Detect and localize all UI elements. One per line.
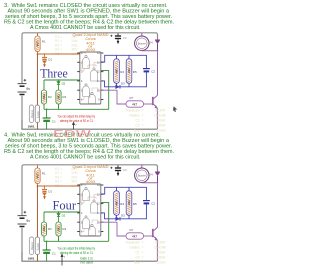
svg-text:Magnet: Magnet — [31, 242, 34, 251]
reed switch SW1 — [35, 105, 40, 123]
paragraph 3 — [4, 3, 174, 31]
svg-text:You can adjust the initial del: You can adjust the initial delay by — [58, 114, 96, 118]
diode D2 — [57, 213, 61, 222]
diode D4 — [155, 171, 160, 183]
resistor R7 4k7 — [126, 228, 144, 239]
battery B1 9v — [18, 172, 27, 252]
svg-text:7: 7 — [64, 256, 66, 259]
wire collector purple — [157, 51, 159, 96]
svg-text:D1: D1 — [48, 189, 52, 193]
svg-text:10M: 10M — [127, 200, 131, 206]
svg-text:2M2: 2M2 — [57, 94, 61, 100]
wire R1 top — [37, 33, 39, 36]
svg-text:D4: D4 — [149, 172, 153, 176]
svg-text:R5: R5 — [133, 70, 137, 74]
svg-text:EDW: EDW — [53, 128, 91, 140]
parts list (semiconductors) — [125, 241, 166, 265]
wire blue timing loop — [101, 187, 147, 219]
wire green to IC pin 12 — [101, 71, 109, 110]
resistor R1 4M7 — [35, 168, 46, 184]
svg-text:SW1: SW1 — [28, 257, 35, 261]
resistor R7 4k7 — [126, 96, 144, 107]
svg-text:D2: D2 — [62, 81, 66, 85]
note: adjust initial delay — [58, 246, 96, 255]
NAND gate 2 — [91, 200, 98, 213]
svg-text:You can adjust the initial del: You can adjust the initial delay by — [58, 246, 96, 250]
wire blue timing loop — [101, 55, 147, 87]
svg-text:R7: R7 — [130, 96, 134, 100]
svg-text:C1: C1 — [52, 119, 56, 123]
wire base purple from pin 10 — [101, 222, 126, 236]
NAND gate 1 — [83, 187, 90, 200]
svg-text:altering the value of R2 or C1: altering the value of R2 or C1 — [60, 251, 93, 255]
svg-text:Transistor =: Transistor = — [125, 241, 143, 245]
svg-text:C1: C1 — [52, 251, 56, 255]
svg-text:4M7: 4M7 — [36, 173, 40, 179]
svg-text:not used: not used — [81, 260, 93, 264]
pin 7 to 0v arrow — [72, 122, 77, 130]
IC type note: Quad 2-input NAND Cmos 4011 or 4093 — [73, 165, 109, 184]
svg-text:10M: 10M — [42, 94, 46, 100]
svg-text:R3: R3 — [62, 227, 66, 231]
svg-text:C2 =: C2 = — [136, 124, 144, 128]
resistor R3 2M2 — [56, 90, 67, 104]
svg-text:R2: R2 — [48, 95, 52, 99]
svg-text:Buzzer: Buzzer — [138, 41, 146, 45]
svg-text:Diodes =: Diodes = — [129, 246, 143, 250]
wire 0v bottom rail — [22, 252, 158, 261]
reed switch SW1 — [35, 237, 40, 255]
IC U1 Cmos 4011 — [80, 52, 101, 104]
svg-text:BC547: BC547 — [155, 109, 165, 113]
capacitor C1 100u — [43, 241, 51, 261]
svg-text:4M7: 4M7 — [115, 68, 119, 74]
parts list (resistors) — [55, 167, 78, 188]
wire green node C — [44, 104, 109, 109]
svg-text:4M7: 4M7 — [36, 41, 40, 47]
capacitor C2 100u — [143, 69, 150, 73]
svg-text:Magnet: Magnet — [31, 110, 34, 119]
svg-text:100uF: 100uF — [156, 256, 165, 260]
magnet (operates SW1) — [29, 237, 34, 255]
wire base purple from pin 10 — [101, 90, 126, 104]
wire SW1 branch — [36, 186, 38, 261]
resistor R4 4M7 — [114, 59, 125, 84]
IC pins left — [77, 185, 80, 232]
svg-text:Three: Three — [40, 67, 68, 81]
svg-text:D3: D3 — [121, 82, 125, 86]
wire SW1 branch — [36, 54, 38, 129]
svg-text:R4: R4 — [120, 70, 124, 74]
transistor Q1 BC547 — [144, 95, 159, 129]
gate internal wiring — [80, 53, 101, 100]
IC pins left — [77, 53, 80, 100]
pin numbers — [81, 52, 100, 102]
resistor R5 10M — [126, 191, 137, 216]
svg-text:R1: R1 — [42, 172, 46, 176]
pin 7 to 0v arrow — [61, 254, 66, 266]
svg-text:9v: 9v — [26, 219, 30, 223]
diode D3 — [116, 85, 120, 89]
svg-text:C2: C2 — [151, 70, 155, 74]
wire R1 top — [37, 165, 39, 168]
svg-text:A Cmos 4001 CANNOT be used for: A Cmos 4001 CANNOT be used for this circ… — [30, 25, 141, 31]
IC type note: Quad 2-input NAND Cmos 4011 or 4093 — [73, 33, 109, 52]
svg-text:10M: 10M — [42, 226, 46, 232]
wire R4 R5 taps — [117, 55, 130, 87]
svg-text:SW1: SW1 — [28, 125, 35, 129]
svg-text:Buzzer: Buzzer — [138, 173, 146, 177]
svg-text:100uF: 100uF — [156, 124, 165, 128]
svg-text:R2: R2 — [48, 227, 52, 231]
svg-text:4k7: 4k7 — [132, 234, 137, 238]
capacitor C3 100n — [110, 33, 121, 44]
svg-text:R1: R1 — [42, 40, 46, 44]
svg-text:R5: R5 — [133, 202, 137, 206]
transistor Q1 BC547 — [144, 227, 159, 261]
wire green to IC pin 12 — [101, 203, 109, 242]
IC U1 Cmos 4011 — [80, 184, 101, 236]
wire collector purple — [157, 183, 159, 228]
svg-text:2M2: 2M2 — [57, 226, 61, 232]
parts list (semiconductors) — [125, 109, 166, 133]
NAND gate 3 — [83, 216, 90, 229]
diode D1 — [42, 186, 47, 199]
buzzer BZ1 — [135, 165, 158, 183]
svg-text:100uF: 100uF — [156, 251, 165, 255]
resistor R3 2M2 — [56, 222, 67, 236]
svg-text:4M7: 4M7 — [115, 200, 119, 206]
svg-text:D4: D4 — [149, 40, 153, 44]
resistor R2 10M — [41, 90, 52, 104]
svg-text:C3: C3 — [123, 168, 127, 172]
svg-text:A Cmos 4001 CANNOT be used for: A Cmos 4001 CANNOT be used for this circ… — [30, 155, 141, 161]
svg-text:R4: R4 — [120, 202, 124, 206]
svg-text:Buz =: Buz = — [134, 261, 144, 265]
svg-text:C2: C2 — [151, 202, 155, 206]
wire +9v top rail (circuit 2) — [22, 165, 158, 172]
NAND gate 3 — [83, 84, 90, 97]
svg-text:Four: Four — [53, 199, 77, 213]
svg-text:1N4148: 1N4148 — [154, 246, 166, 250]
IC pins right — [101, 53, 104, 100]
wire R4 R5 taps — [117, 187, 130, 219]
NAND gate 1 — [83, 55, 90, 68]
wire 0v bottom rail — [22, 120, 158, 129]
svg-text:D1: D1 — [48, 57, 52, 61]
IC pins right — [101, 185, 104, 232]
wire green node B — [44, 212, 80, 222]
svg-text:altering the value of R2 or C1: altering the value of R2 or C1 — [60, 119, 93, 123]
note: adjust initial delay — [58, 114, 96, 123]
svg-text:C1 =: C1 = — [136, 251, 144, 255]
parts list (resistors) — [55, 35, 78, 56]
diode D4 — [155, 39, 160, 51]
svg-text:4k7: 4k7 — [132, 102, 137, 106]
gate internal wiring — [80, 185, 101, 232]
paragraph 4 — [4, 133, 174, 161]
wire +9v top rail (circuit 1) — [22, 33, 158, 40]
svg-text:10M: 10M — [127, 68, 131, 74]
svg-text:D3: D3 — [121, 214, 125, 218]
capacitor C2 100u — [143, 201, 150, 205]
resistor R4 4M7 — [114, 191, 125, 216]
diode D3 — [116, 217, 120, 221]
svg-text:Diodes =: Diodes = — [129, 114, 143, 118]
wire green node B — [44, 80, 80, 90]
svg-text:R3: R3 — [62, 95, 66, 99]
svg-text:7: 7 — [75, 124, 77, 127]
NAND gate 2 — [91, 68, 98, 81]
svg-text:C3: C3 — [123, 36, 127, 40]
diode D1 — [42, 54, 47, 67]
buzzer BZ1 — [135, 33, 158, 51]
svg-text:D2: D2 — [62, 213, 66, 217]
svg-text:Switch: Switch — [37, 110, 40, 118]
wire node A orange — [38, 52, 80, 55]
svg-text:12mm: 12mm — [156, 261, 165, 265]
svg-text:9v: 9v — [26, 87, 30, 91]
pin numbers — [81, 184, 100, 234]
note: gate 1 not used — [80, 256, 93, 264]
resistor R1 4M7 — [35, 36, 46, 52]
NAND gate 4 — [89, 92, 96, 103]
capacitor C3 100n — [110, 165, 121, 176]
svg-text:C2 =: C2 = — [136, 256, 144, 260]
svg-text:Switch: Switch — [37, 242, 40, 250]
NAND gate 4 — [89, 224, 96, 235]
magnet (operates SW1) — [29, 105, 34, 123]
svg-text:Transistor =: Transistor = — [125, 109, 143, 113]
wire node A orange — [38, 184, 80, 187]
svg-text:BC547: BC547 — [155, 241, 165, 245]
resistor R5 10M — [126, 59, 137, 84]
svg-text:100uF: 100uF — [156, 119, 165, 123]
battery B1 9v — [18, 40, 27, 120]
resistor R2 10M — [41, 222, 52, 236]
cursor arrow — [173, 106, 177, 112]
svg-text:1N4148: 1N4148 — [154, 114, 166, 118]
wire green node C — [44, 236, 109, 241]
capacitor C1 100u — [43, 109, 51, 129]
svg-text:R7: R7 — [130, 228, 134, 232]
svg-text:C1 =: C1 = — [136, 119, 144, 123]
diode D2 — [57, 81, 61, 90]
